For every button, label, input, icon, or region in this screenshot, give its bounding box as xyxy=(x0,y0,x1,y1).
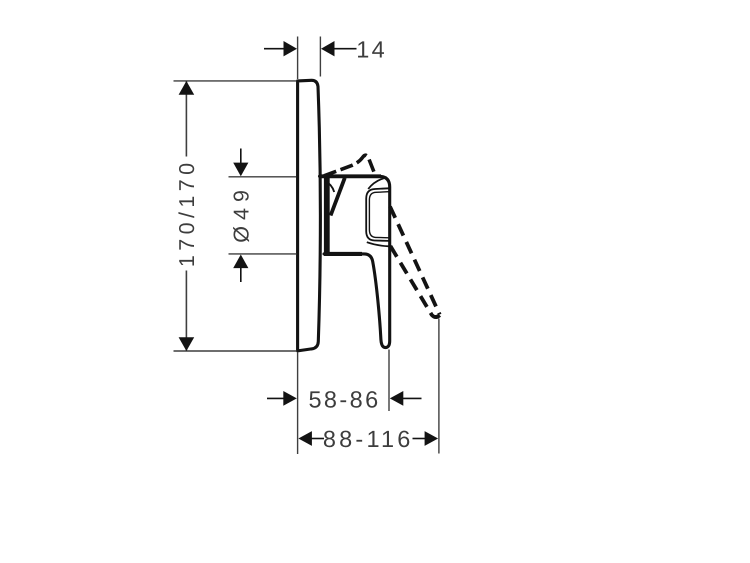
dimension 58-86: right arrow tail xyxy=(403,397,422,399)
dimension 58-86: left arrow tail xyxy=(267,397,285,399)
dimension 170/170: bottom arrowhead xyxy=(179,337,195,351)
svg-text:88-116: 88-116 xyxy=(323,426,414,452)
handle lever solid outline xyxy=(320,176,390,347)
dimension 58-86: left arrowhead xyxy=(283,391,297,406)
dimension 14: right arrow tail xyxy=(334,48,357,50)
handle neck fillet curve xyxy=(325,181,335,192)
dimension 14: right arrowhead xyxy=(321,41,335,56)
dimension D49: top arrow tail xyxy=(240,149,242,165)
grip lower shoulder arc xyxy=(367,242,389,246)
dimension 88-116: right connector line xyxy=(413,438,426,440)
dimension 58-86: right arrowhead xyxy=(390,391,404,406)
wall plate (escutcheon side view) xyxy=(298,80,321,351)
dimension D49: top arrowhead (pointing down) xyxy=(233,163,248,177)
dimension 58-86: left extension line (below plate) xyxy=(297,352,299,454)
grip shoulder top arc xyxy=(368,177,387,189)
dimension D49: value label (rotated) xyxy=(230,184,254,243)
svg-text:170/170: 170/170 xyxy=(175,159,199,268)
dashed handle front edge and tip (open position) xyxy=(390,246,439,317)
valve body top line xyxy=(320,174,382,178)
valve body vertical bar xyxy=(324,177,330,254)
dimension 14: left arrow tail xyxy=(264,48,285,50)
dimension 88-116: left connector line xyxy=(311,438,324,440)
dimension 170/170: top arrowhead xyxy=(179,81,195,95)
svg-text:58-86: 58-86 xyxy=(308,387,380,413)
dimension 170/170: bottom extension line xyxy=(174,350,297,352)
dashed handle back edge (open position) xyxy=(390,207,440,315)
dimension 170/170: dimension line upper segment xyxy=(185,81,187,157)
dimension D49: top extension line xyxy=(229,176,297,178)
dimension 14: left arrowhead xyxy=(284,41,298,56)
dimension 170/170: dimension line lower segment xyxy=(185,271,187,352)
svg-text:Ø49: Ø49 xyxy=(230,184,254,243)
svg-text:14: 14 xyxy=(356,36,387,62)
dashed handle top edge (open position) xyxy=(324,155,374,176)
grip face outer outline xyxy=(366,188,389,241)
valve body bottom line xyxy=(324,252,362,256)
dimension 14: left extension line xyxy=(297,37,299,80)
dimension 58-86: right extension line (below handle tip) xyxy=(388,350,390,412)
dimension D49: bottom arrow tail xyxy=(240,267,242,282)
dimension 88-116: left arrowhead xyxy=(298,431,312,446)
handle neck diagonal edge xyxy=(331,178,345,216)
grip face inner outline xyxy=(369,192,388,238)
dimension 88-116: right extension line (below open handle tip) xyxy=(438,319,440,454)
dimension 88-116: right arrowhead xyxy=(425,431,439,446)
dimension 14: right extension line xyxy=(319,37,321,77)
dimension D49: bottom extension line xyxy=(229,253,297,255)
dimension D49: bottom arrowhead (pointing up) xyxy=(233,255,248,269)
dimension 170/170: value label (rotated) xyxy=(175,159,199,268)
dimension 170/170: top extension line xyxy=(174,80,297,82)
